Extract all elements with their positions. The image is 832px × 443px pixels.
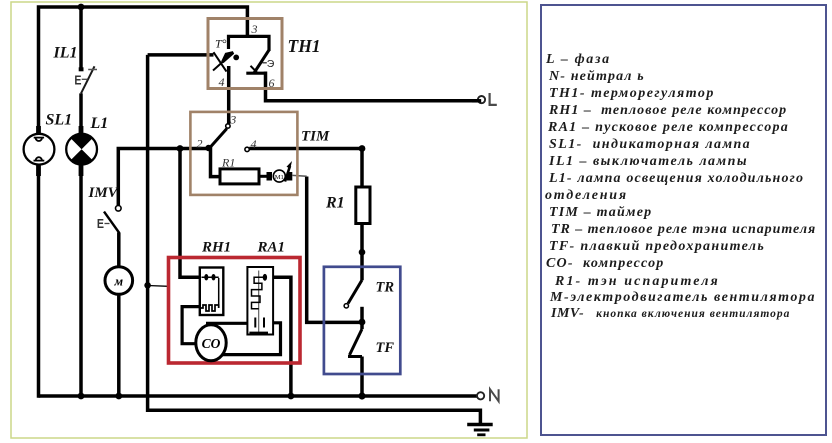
svg-text:TF: TF [376,340,395,356]
svg-text:2: 2 [197,137,203,151]
svg-text:TH1: TH1 [288,36,321,56]
svg-text:Э: Э [267,58,275,70]
svg-text:T°: T° [215,37,227,51]
svg-text:3: 3 [251,22,258,36]
svg-text:TIM: TIM [301,128,330,144]
svg-text:R1: R1 [325,195,345,212]
svg-text:IL1: IL1 [53,44,78,61]
svg-text:L1: L1 [90,115,109,132]
svg-text:SL1: SL1 [46,111,73,128]
svg-text:м: м [114,275,124,289]
svg-text:M1: M1 [275,174,284,181]
svg-text:RA1: RA1 [257,240,286,256]
svg-text:6: 6 [269,76,275,90]
svg-text:CO: CO [202,336,221,351]
svg-text:E: E [97,217,104,231]
svg-text:3: 3 [229,113,236,127]
svg-text:R1: R1 [221,156,235,170]
svg-text:4: 4 [251,137,257,151]
svg-text:RH1: RH1 [201,240,231,256]
svg-text:IMV: IMV [88,185,120,201]
svg-text:4: 4 [219,75,225,89]
svg-text:TR: TR [376,280,395,296]
svg-text:E: E [74,74,81,88]
